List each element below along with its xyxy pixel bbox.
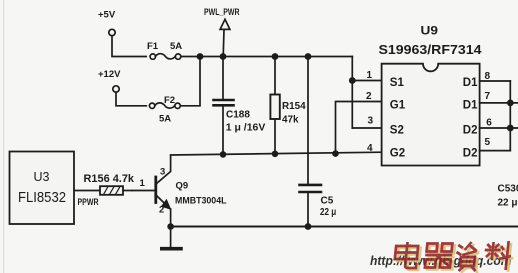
node junction C5 bottom xyxy=(305,223,312,230)
watermark chinese characters xyxy=(393,241,515,273)
wire right drain bus xyxy=(509,81,511,151)
svg-text:1: 1 xyxy=(140,178,146,189)
svg-text:8: 8 xyxy=(485,71,491,82)
svg-text:3: 3 xyxy=(160,167,165,178)
wire bottom bus xyxy=(171,226,518,228)
wire PWL_PWR riser xyxy=(222,30,225,57)
wire G1 drop xyxy=(336,102,382,154)
svg-text:G2: G2 xyxy=(390,147,405,159)
svg-text:S1: S1 xyxy=(390,77,405,89)
capacitor C188 xyxy=(222,57,224,100)
svg-text:G1: G1 xyxy=(390,99,406,111)
scan edge artifact line xyxy=(3,0,4,273)
node junction bus x275 xyxy=(272,53,279,60)
svg-text:PPWR: PPWR xyxy=(78,197,99,208)
svg-text:D1: D1 xyxy=(463,77,478,89)
wire gate line Q9 collector to G2 pin4 xyxy=(171,152,382,155)
svg-text:22 μ: 22 μ xyxy=(498,198,518,209)
svg-text:R156 4.7k: R156 4.7k xyxy=(84,173,135,185)
svg-text:PWL_PWR: PWL_PWR xyxy=(204,7,240,17)
svg-text:2: 2 xyxy=(159,205,164,216)
svg-text:6: 6 xyxy=(486,118,492,129)
svg-text:U9: U9 xyxy=(421,24,439,38)
svg-text:C530: C530 xyxy=(498,184,518,195)
node junction drain bus pin6 xyxy=(507,125,514,132)
svg-text:U3: U3 xyxy=(34,170,50,184)
svg-text:7: 7 xyxy=(485,91,491,102)
node junction bus x200 xyxy=(197,53,204,60)
svg-text:4: 4 xyxy=(367,143,373,154)
node junction S1 xyxy=(349,77,356,84)
box U3 xyxy=(10,152,75,225)
svg-text:3: 3 xyxy=(368,116,374,127)
svg-text:5A: 5A xyxy=(159,114,171,125)
wire pin3 S2 lead xyxy=(352,127,381,129)
svg-text:D2: D2 xyxy=(463,125,478,137)
wire D pin leads right xyxy=(480,80,511,82)
svg-text:2: 2 xyxy=(366,91,372,102)
svg-text:1: 1 xyxy=(367,70,373,81)
transistor Q9 MMBT3004L xyxy=(154,177,157,203)
capacitor C5 xyxy=(307,57,309,185)
node junction gate line C188 xyxy=(220,151,227,158)
ground xyxy=(170,227,172,248)
svg-text:F2: F2 xyxy=(164,95,175,106)
svg-text:D2: D2 xyxy=(463,147,478,159)
resistor R156 xyxy=(74,190,100,192)
svg-text:+5V: +5V xyxy=(98,10,116,21)
node junction gate line R154 xyxy=(272,151,279,158)
svg-text:47k: 47k xyxy=(282,113,299,125)
svg-text:MMBT3004L: MMBT3004L xyxy=(175,195,227,206)
wire +12V down/right to F2 xyxy=(116,93,146,106)
fuse F1 xyxy=(150,54,155,59)
node junction drain bus pin7 xyxy=(507,100,514,107)
svg-text:C5: C5 xyxy=(321,196,334,207)
svg-text:C188: C188 xyxy=(226,110,250,121)
svg-text:D1: D1 xyxy=(463,99,478,111)
node junction gate line G1 xyxy=(332,150,339,157)
svg-text:+12V: +12V xyxy=(98,69,121,80)
svg-text:S2: S2 xyxy=(390,125,404,137)
node junction bus x223 xyxy=(220,53,227,60)
wire top power bus xyxy=(181,56,352,58)
node junction bus x308 xyxy=(305,53,312,60)
wire F2 to bus riser xyxy=(180,58,200,106)
svg-text:FLI8532: FLI8532 xyxy=(18,190,66,206)
wire pin1 S1 lead xyxy=(352,80,381,82)
svg-text:Q9: Q9 xyxy=(176,181,189,192)
svg-text:22 μ: 22 μ xyxy=(320,207,336,218)
resistor R154 xyxy=(274,57,276,95)
fuse F2 xyxy=(149,103,154,108)
svg-text:1 μ /16V: 1 μ /16V xyxy=(226,122,266,133)
node +12V terminal xyxy=(113,86,119,92)
node junction emitter ground xyxy=(167,223,174,230)
node +5V terminal xyxy=(109,29,115,35)
svg-text:5A: 5A xyxy=(170,41,182,52)
node PWL_PWR triangle xyxy=(220,19,230,29)
svg-text:5: 5 xyxy=(485,137,491,148)
wire +5V down/right to F1 xyxy=(112,36,146,57)
svg-text:R154: R154 xyxy=(282,100,306,112)
IC U9 body xyxy=(382,64,480,166)
wire S-riser to pins S1,S2 xyxy=(351,57,353,129)
svg-text:S19963/RF7314: S19963/RF7314 xyxy=(379,42,483,57)
svg-text:F1: F1 xyxy=(147,41,159,52)
